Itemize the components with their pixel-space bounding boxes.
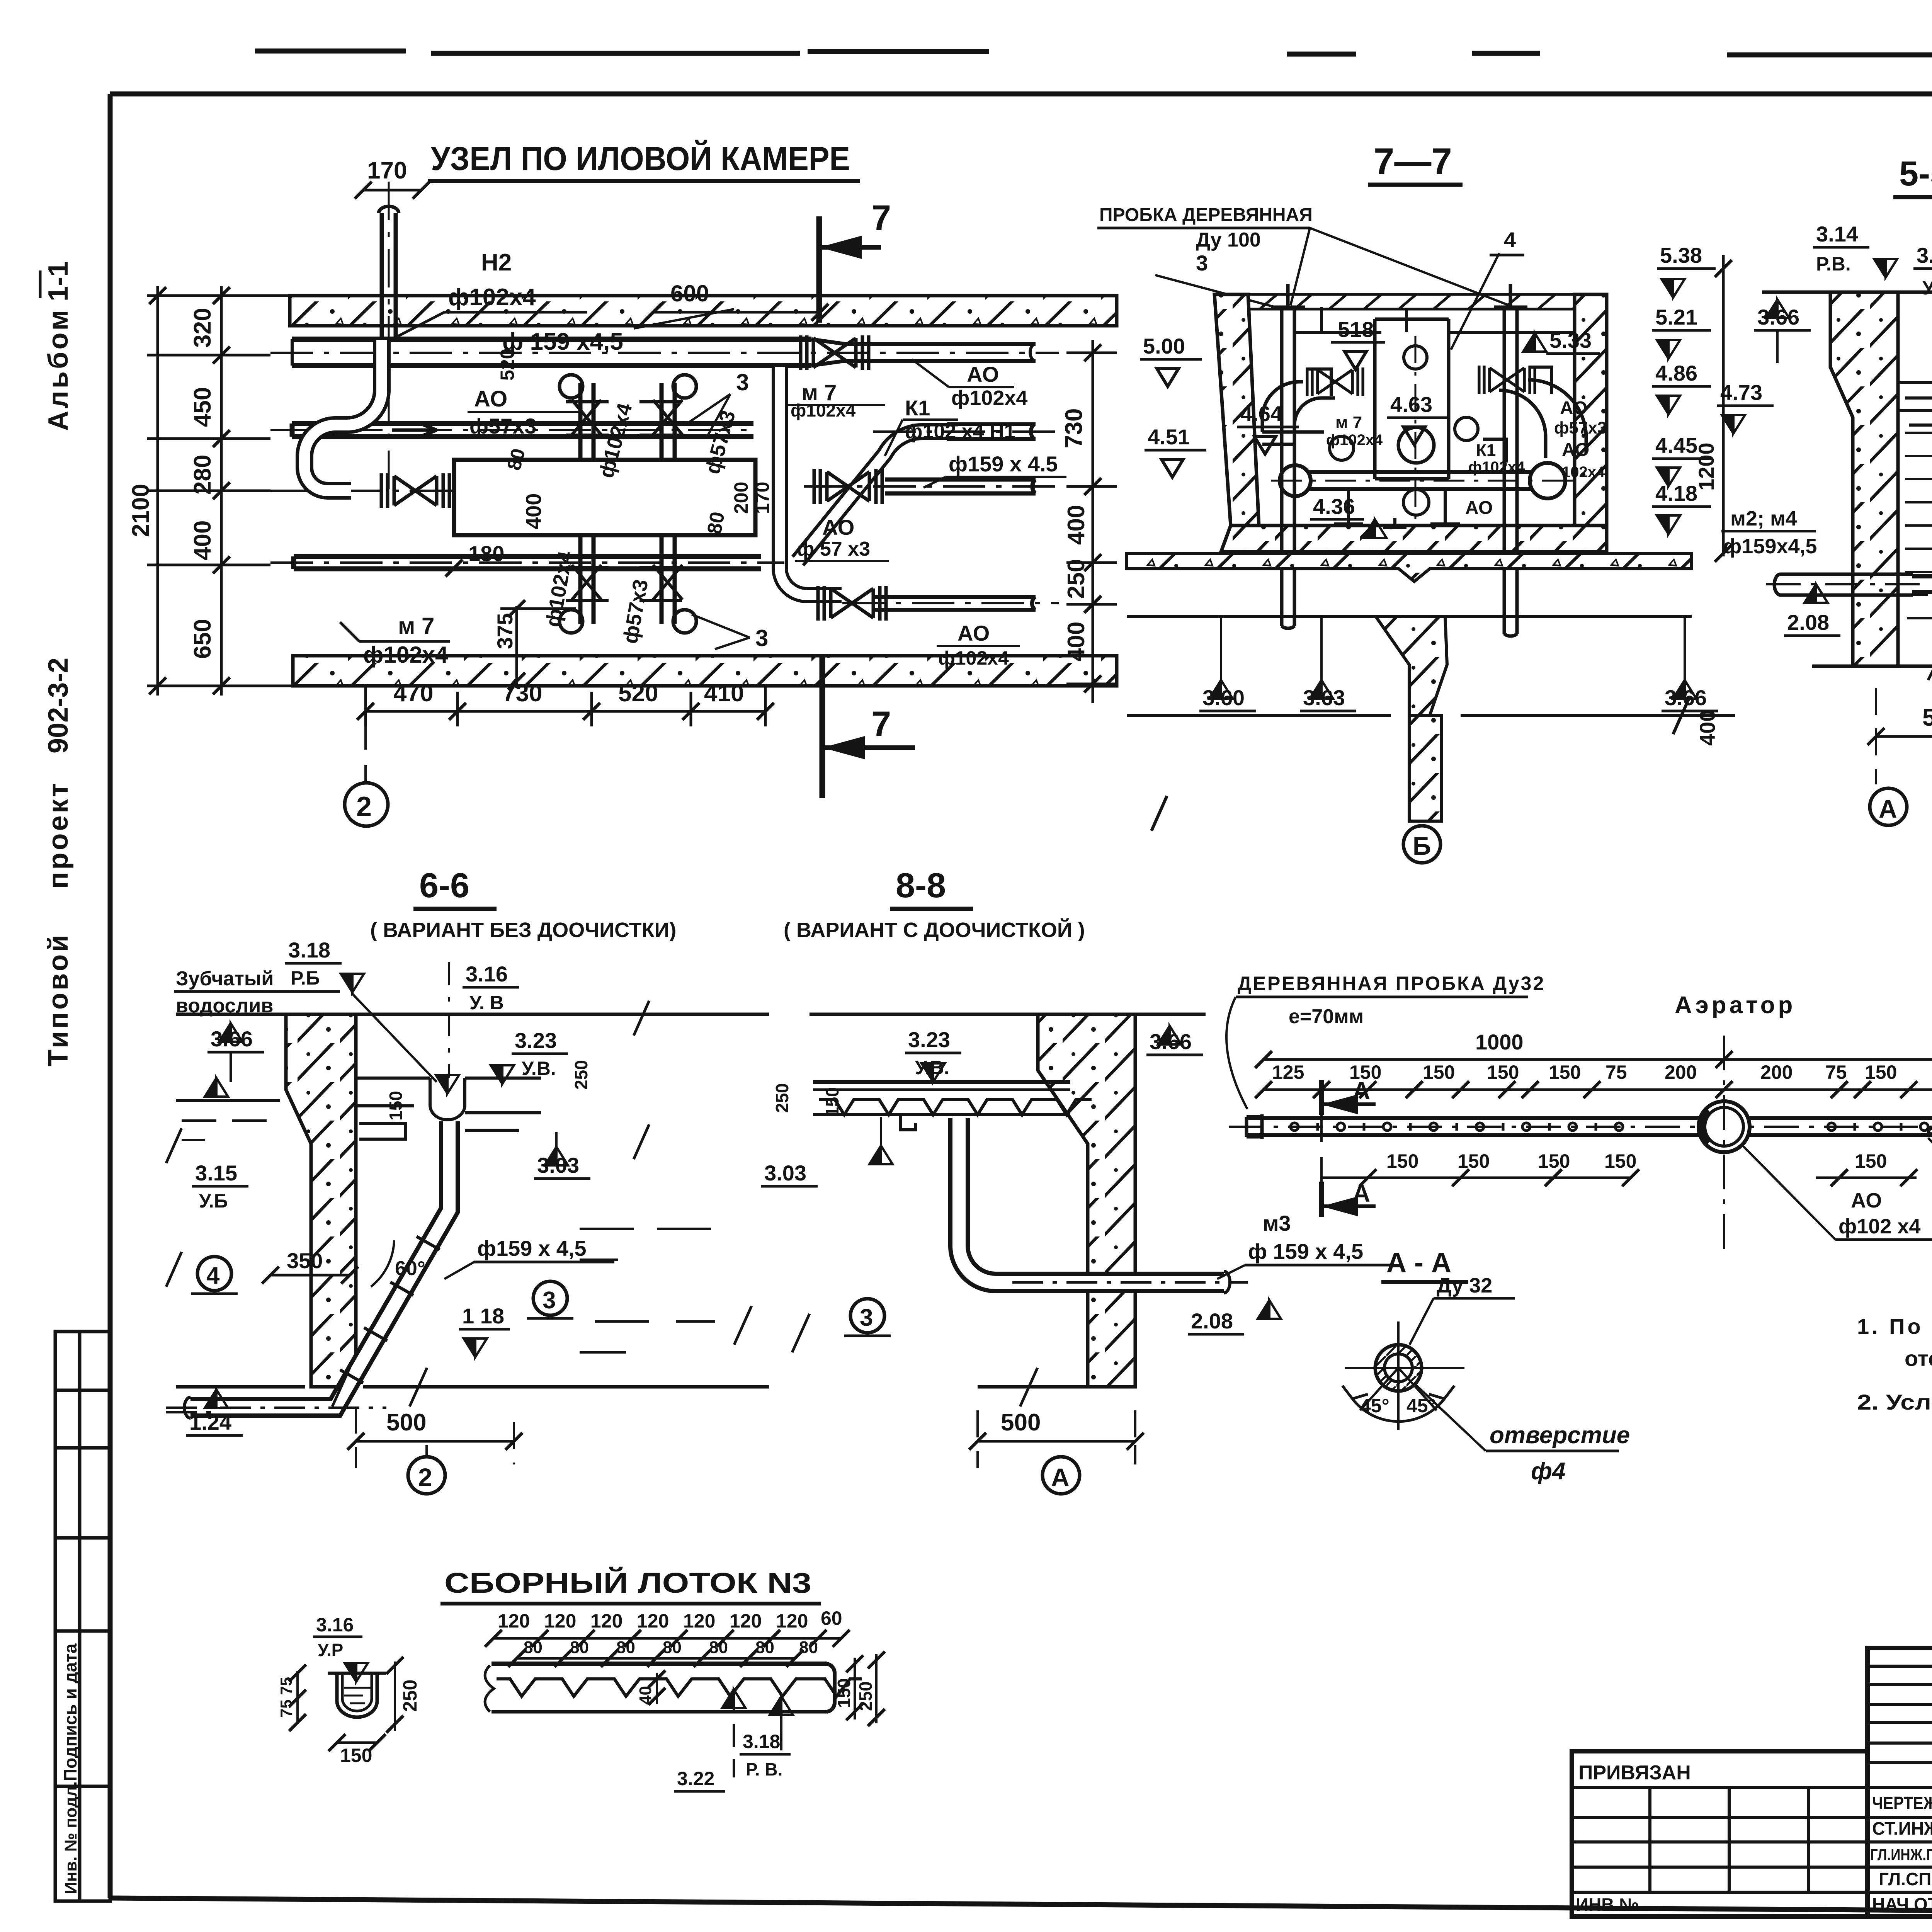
bottom dim chain bbox=[1321, 1177, 1631, 1179]
svg-text:3.18: 3.18 bbox=[288, 938, 330, 962]
ground line bbox=[176, 1013, 286, 1016]
svg-text:Альбом: Альбом bbox=[43, 308, 74, 431]
svg-text:3.22: 3.22 bbox=[677, 1768, 714, 1789]
svg-text:ф102х4: ф102х4 bbox=[951, 386, 1027, 410]
svg-text:650: 650 bbox=[189, 619, 216, 659]
svg-text:500: 500 bbox=[1001, 1409, 1041, 1436]
svg-text:200: 200 bbox=[1760, 1061, 1793, 1083]
elevation marks on teeth bbox=[722, 1689, 745, 1708]
svg-text:150: 150 bbox=[1604, 1150, 1636, 1172]
pipe supports bbox=[1334, 489, 1460, 527]
water dashes in tank bbox=[1905, 433, 1932, 618]
diagonal K1 pipe bbox=[798, 432, 958, 561]
svg-text:500: 500 bbox=[386, 1409, 426, 1436]
svg-text:3: 3 bbox=[755, 625, 768, 651]
svg-text:Н2: Н2 bbox=[481, 249, 512, 276]
svg-text:5.38: 5.38 bbox=[1660, 243, 1702, 267]
svg-text:410: 410 bbox=[704, 680, 744, 707]
svg-text:600: 600 bbox=[670, 281, 709, 306]
svg-text:3.15: 3.15 bbox=[195, 1161, 237, 1185]
svg-text:У.Р: У.Р bbox=[318, 1640, 343, 1660]
svg-text:( ВАРИАНТ С ДООЧИСТКОЙ ): ( ВАРИАНТ С ДООЧИСТКОЙ ) bbox=[784, 918, 1085, 942]
svg-text:5.33: 5.33 bbox=[1549, 328, 1592, 352]
valve on top pipe bbox=[801, 335, 869, 370]
svg-text:У.В.: У.В. bbox=[522, 1058, 556, 1079]
svg-text:АО: АО bbox=[957, 621, 990, 645]
svg-text:2. Условные обозначения труб: 2. Условные обозначения трубопроводов см… bbox=[1857, 1390, 1932, 1414]
tank wall with corbel bbox=[1830, 292, 1898, 666]
svg-text:УЗЕЛ ПО ИЛОВОЙ КАМЕРЕ: УЗЕЛ ПО ИЛОВОЙ КАМЕРЕ bbox=[431, 140, 850, 177]
svg-text:м 7: м 7 bbox=[398, 613, 434, 639]
svg-text:АО: АО bbox=[1465, 498, 1493, 518]
bottom concrete wall band bbox=[293, 656, 1117, 686]
dim 170 over riser bbox=[363, 189, 421, 192]
section 7 cut top bbox=[816, 216, 822, 323]
svg-text:м2; м4: м2; м4 bbox=[1730, 507, 1797, 530]
svg-text:75 75: 75 75 bbox=[277, 1677, 295, 1718]
svg-text:У.Б: У.Б bbox=[199, 1190, 228, 1212]
vertical pipe from lotok down bbox=[1912, 410, 1932, 584]
svg-text:ф102х4: ф102х4 bbox=[938, 647, 1009, 669]
svg-text:250: 250 bbox=[772, 1083, 792, 1113]
axis circle 2 bbox=[408, 1457, 445, 1494]
svg-text:7—7: 7—7 bbox=[1374, 141, 1452, 182]
40 dim bbox=[656, 1673, 658, 1704]
svg-text:4.64: 4.64 bbox=[1240, 401, 1282, 426]
svg-text:АО: АО bbox=[967, 362, 999, 386]
floor line bbox=[176, 1385, 305, 1389]
svg-text:( ВАРИАНТ БЕЗ ДООЧИСТКИ): ( ВАРИАНТ БЕЗ ДООЧИСТКИ) bbox=[370, 918, 676, 942]
centerline of top pipe bbox=[270, 352, 1059, 354]
svg-text:280: 280 bbox=[189, 455, 216, 495]
svg-text:ГЛ.ИНЖ.ПР.: ГЛ.ИНЖ.ПР. bbox=[1870, 1845, 1932, 1864]
svg-text:150: 150 bbox=[1386, 1150, 1418, 1172]
svg-text:3.03: 3.03 bbox=[764, 1161, 806, 1185]
svg-text:60°: 60° bbox=[395, 1257, 425, 1280]
svg-text:400: 400 bbox=[521, 493, 546, 529]
svg-text:520: 520 bbox=[618, 680, 658, 707]
svg-text:520: 520 bbox=[497, 349, 518, 381]
svg-text:320: 320 bbox=[189, 308, 216, 348]
svg-text:СТ.ИНЖ.: СТ.ИНЖ. bbox=[1872, 1818, 1932, 1838]
svg-text:4.73: 4.73 bbox=[1720, 380, 1762, 405]
svg-text:2.08: 2.08 bbox=[1787, 610, 1829, 634]
axis circle 3 bbox=[850, 1299, 884, 1333]
svg-text:ф159х4,5: ф159х4,5 bbox=[1723, 535, 1817, 558]
svg-text:Типовой: Типовой bbox=[43, 932, 74, 1066]
svg-text:ф102 х4: ф102 х4 bbox=[1838, 1215, 1920, 1238]
svg-text:проект: проект bbox=[43, 781, 74, 889]
small bracket under plank bbox=[900, 1114, 916, 1130]
svg-text:АО: АО bbox=[474, 386, 507, 412]
right dim chain of plan bbox=[1066, 340, 1117, 703]
lower-right pipe row with valve bbox=[873, 597, 1036, 610]
valve on left elbow run bbox=[381, 473, 449, 508]
svg-text:1.24: 1.24 bbox=[189, 1410, 231, 1434]
svg-text:75: 75 bbox=[1605, 1061, 1627, 1083]
long trough top dim chains bbox=[493, 1637, 841, 1640]
pipe K1/H1 right run bbox=[947, 424, 1036, 439]
down pipe with elbow right bbox=[959, 1118, 1224, 1282]
svg-text:АО: АО bbox=[1560, 398, 1587, 418]
svg-text:400: 400 bbox=[1063, 622, 1090, 662]
svg-text:Р.В.: Р.В. bbox=[1816, 253, 1851, 275]
svg-text:ф 57 х3: ф 57 х3 bbox=[797, 538, 870, 560]
dims of small section bbox=[296, 1671, 299, 1723]
svg-text:250: 250 bbox=[399, 1680, 421, 1712]
svg-text:Ду 100: Ду 100 bbox=[1196, 229, 1261, 251]
svg-text:ф102х4: ф102х4 bbox=[363, 642, 448, 668]
svg-text:А: А bbox=[1051, 1463, 1070, 1492]
svg-text:4.45: 4.45 bbox=[1655, 433, 1697, 457]
svg-text:е=70мм: е=70мм bbox=[1289, 1005, 1364, 1028]
level marks inside tank bbox=[1140, 317, 1600, 538]
svg-text:150: 150 bbox=[1458, 1150, 1490, 1172]
svg-text:АО: АО bbox=[1562, 440, 1589, 460]
svg-text:У. В: У. В bbox=[469, 992, 504, 1014]
middle risers cluster upper (pair) bbox=[560, 375, 696, 460]
top dim chain 1000/1000 bbox=[1264, 1058, 1932, 1061]
svg-text:150: 150 bbox=[1865, 1061, 1897, 1083]
svg-text:500: 500 bbox=[1922, 704, 1932, 731]
svg-text:3.16: 3.16 bbox=[466, 962, 508, 986]
svg-text:120: 120 bbox=[683, 1610, 715, 1632]
second dim chain bbox=[1264, 1088, 1932, 1091]
svg-text:80: 80 bbox=[755, 1638, 774, 1657]
svg-text:Инв. № подл.: Инв. № подл. bbox=[61, 1781, 80, 1894]
svg-text:Зубчатый: Зубчатый bbox=[176, 968, 274, 990]
svg-text:4.63: 4.63 bbox=[1390, 392, 1432, 417]
down pipe with 60 deg bend bbox=[190, 1121, 449, 1407]
svg-text:150: 150 bbox=[1549, 1061, 1581, 1083]
dim 500 bottom bbox=[1876, 735, 1932, 738]
svg-text:1200: 1200 bbox=[1694, 442, 1718, 491]
central flange bbox=[1699, 1101, 1750, 1152]
svg-text:ИНВ.№: ИНВ.№ bbox=[1576, 1895, 1639, 1915]
svg-text:120: 120 bbox=[730, 1610, 762, 1632]
svg-text:Р.Б: Р.Б bbox=[291, 967, 320, 989]
svg-text:У.В: У.В bbox=[1922, 277, 1932, 299]
svg-text:3.18: 3.18 bbox=[743, 1731, 780, 1752]
valve right inside tank 7-7 bbox=[1479, 366, 1535, 394]
svg-text:80: 80 bbox=[709, 1638, 728, 1657]
underground lines bbox=[1127, 616, 1735, 831]
svg-text:ф57х3: ф57х3 bbox=[469, 414, 537, 438]
left margin column strip bbox=[55, 1332, 110, 1901]
ground top line bbox=[1762, 291, 1830, 294]
svg-text:3.14: 3.14 bbox=[1816, 222, 1858, 246]
svg-text:К1: К1 bbox=[1476, 441, 1496, 460]
svg-text:3: 3 bbox=[860, 1304, 873, 1331]
svg-text:902-3-2: 902-3-2 bbox=[43, 658, 74, 753]
lotok plank with teeth bbox=[813, 1082, 1092, 1115]
trough body bbox=[485, 1664, 862, 1712]
svg-text:3: 3 bbox=[1196, 251, 1208, 275]
svg-text:150: 150 bbox=[834, 1678, 854, 1708]
wood plug riser left bbox=[1271, 284, 1305, 628]
svg-text:150: 150 bbox=[1423, 1061, 1455, 1083]
bottom left pipe into wall bbox=[1774, 574, 1913, 595]
left S-elbow pipe (hollow) bbox=[304, 340, 382, 491]
svg-text:3.11: 3.11 bbox=[1917, 243, 1932, 267]
svg-text:м3: м3 bbox=[1263, 1211, 1291, 1235]
lower left pipe elevation bbox=[205, 1389, 228, 1408]
svg-text:150: 150 bbox=[1487, 1061, 1519, 1083]
water area with lotok bbox=[1898, 383, 1932, 432]
svg-text:АО: АО bbox=[1851, 1189, 1882, 1212]
svg-text:75: 75 bbox=[1825, 1061, 1847, 1083]
svg-text:ф102 х4 Н1: ф102 х4 Н1 bbox=[905, 420, 1015, 443]
svg-text:Ду 32: Ду 32 bbox=[1437, 1274, 1492, 1297]
svg-text:5-5: 5-5 bbox=[1899, 155, 1932, 193]
svg-text:3: 3 bbox=[543, 1287, 556, 1314]
svg-text:1 18: 1 18 bbox=[462, 1304, 504, 1328]
svg-text:Аэратор: Аэратор bbox=[1675, 992, 1796, 1019]
svg-text:80: 80 bbox=[663, 1638, 682, 1657]
axis circles bbox=[197, 1257, 231, 1291]
svg-text:470: 470 bbox=[393, 680, 433, 707]
water line left bbox=[176, 1099, 280, 1102]
svg-text:400: 400 bbox=[189, 520, 216, 560]
svg-text:6-6: 6-6 bbox=[419, 866, 469, 905]
wire: centerline row 280 bbox=[270, 490, 553, 492]
floor line bbox=[1812, 665, 1932, 668]
inner loop pipes bbox=[1262, 380, 1586, 463]
svg-text:ф102х4: ф102х4 bbox=[448, 284, 536, 311]
svg-text:200: 200 bbox=[730, 482, 752, 514]
svg-text:АО: АО bbox=[822, 515, 854, 539]
privyazan table bbox=[1572, 1787, 1867, 1892]
inner pipework top run bbox=[1294, 307, 1575, 332]
section 7 cut bottom bbox=[820, 657, 825, 798]
valve left inside tank 7-7 bbox=[1307, 367, 1363, 396]
pipe AO f57x3 middle feed bbox=[292, 423, 753, 437]
svg-text:Б: Б bbox=[1413, 832, 1431, 860]
svg-text:80: 80 bbox=[570, 1638, 589, 1657]
svg-text:ф159 х 4.5: ф159 х 4.5 bbox=[949, 452, 1058, 476]
svg-text:1-1: 1-1 bbox=[43, 261, 74, 301]
svg-text:4: 4 bbox=[206, 1262, 220, 1289]
svg-text:150: 150 bbox=[1538, 1150, 1570, 1172]
svg-text:отверстие: отверстие bbox=[1490, 1422, 1630, 1449]
pipe AO f159x4.5 top run bbox=[292, 339, 1036, 366]
svg-text:3.23: 3.23 bbox=[908, 1027, 950, 1052]
svg-text:120: 120 bbox=[544, 1610, 576, 1632]
floor break bbox=[792, 1314, 1037, 1406]
svg-text:ф159 х 4,5: ф159 х 4,5 bbox=[477, 1236, 587, 1260]
svg-text:5.00: 5.00 bbox=[1143, 334, 1185, 358]
dim 375 bbox=[515, 606, 518, 688]
svg-text:2.08: 2.08 bbox=[1191, 1309, 1233, 1333]
right level column 7-7 bbox=[1652, 243, 1732, 562]
svg-text:80: 80 bbox=[703, 510, 729, 536]
svg-text:4.36: 4.36 bbox=[1313, 494, 1355, 519]
svg-text:ф 159 х4,5: ф 159 х4,5 bbox=[502, 328, 623, 355]
svg-text:7: 7 bbox=[871, 704, 891, 744]
holes bbox=[1291, 1123, 1932, 1131]
tank bottom slab bbox=[1221, 526, 1607, 552]
svg-text:3.23: 3.23 bbox=[515, 1028, 557, 1053]
svg-text:80: 80 bbox=[616, 1638, 635, 1657]
valve on lower-right AO pipe row bbox=[818, 586, 886, 621]
svg-text:375: 375 bbox=[493, 613, 517, 649]
svg-text:ПРИВЯЗАН: ПРИВЯЗАН bbox=[1578, 1762, 1691, 1784]
svg-text:350: 350 bbox=[287, 1248, 323, 1273]
axis circle B bbox=[1403, 826, 1440, 863]
axis circle 2 bbox=[364, 726, 367, 784]
svg-text:4: 4 bbox=[1504, 228, 1516, 252]
svg-text:ДЕРЕВЯННАЯ ПРОБКА Ду32: ДЕРЕВЯННАЯ ПРОБКА Ду32 bbox=[1238, 973, 1545, 994]
signatures table grid bbox=[1867, 1648, 1932, 1917]
bottom dim chain bbox=[366, 710, 765, 713]
45 deg arc bbox=[1352, 1399, 1444, 1422]
chamber rectangle bbox=[454, 460, 755, 535]
right wall with corbel bbox=[1038, 1014, 1135, 1387]
ground line bbox=[810, 1013, 1038, 1016]
svg-text:120: 120 bbox=[637, 1610, 669, 1632]
svg-text:ф57х3: ф57х3 bbox=[1554, 418, 1607, 437]
aerator pipe body bbox=[1247, 1111, 1932, 1141]
svg-text:8-8: 8-8 bbox=[896, 866, 946, 905]
pipe ring bbox=[1375, 1345, 1422, 1391]
flow arrow on middle pipe bbox=[392, 424, 437, 436]
svg-text:250: 250 bbox=[1063, 559, 1090, 599]
section A cut marks bbox=[1319, 1080, 1324, 1115]
svg-text:1000: 1000 bbox=[1475, 1030, 1524, 1054]
top concrete wall band bbox=[290, 296, 1117, 326]
svg-text:40: 40 bbox=[636, 1686, 655, 1705]
svg-text:3: 3 bbox=[736, 369, 749, 395]
inner central column bbox=[1375, 319, 1449, 479]
stub into chamber bbox=[479, 491, 518, 510]
svg-text:170: 170 bbox=[752, 482, 773, 514]
svg-text:150: 150 bbox=[340, 1745, 372, 1766]
svg-text:80: 80 bbox=[524, 1638, 543, 1657]
svg-text:Р. В.: Р. В. bbox=[746, 1759, 782, 1779]
riser H2 vertical top-left bbox=[379, 206, 399, 339]
svg-text:518: 518 bbox=[1338, 317, 1374, 342]
pipe f159x4.5 right row bbox=[885, 480, 1036, 493]
svg-text:150: 150 bbox=[386, 1091, 406, 1121]
svg-text:120: 120 bbox=[498, 1610, 530, 1632]
wood plug riser right bbox=[1494, 284, 1527, 636]
svg-text:4.51: 4.51 bbox=[1148, 425, 1190, 449]
axis circle A bbox=[1870, 788, 1907, 825]
central lotok bbox=[356, 1078, 541, 1139]
svg-text:45°: 45° bbox=[1360, 1395, 1389, 1417]
svg-text:180: 180 bbox=[468, 541, 504, 566]
svg-text:м 7: м 7 bbox=[1335, 413, 1362, 432]
svg-text:4.86: 4.86 bbox=[1655, 361, 1697, 385]
svg-text:ЧЕРТЕЖИ: ЧЕРТЕЖИ bbox=[1872, 1793, 1932, 1813]
svg-text:102х4: 102х4 bbox=[1562, 464, 1605, 481]
wall with corbel bbox=[286, 1014, 356, 1387]
svg-text:А - А: А - А bbox=[1386, 1247, 1451, 1278]
svg-text:ф 159 х 4,5: ф 159 х 4,5 bbox=[1248, 1239, 1363, 1264]
valve on pipe f159x4.5 right row bbox=[814, 469, 882, 504]
svg-text:ф102х4: ф102х4 bbox=[791, 400, 856, 420]
svg-text:120: 120 bbox=[776, 1610, 808, 1632]
axis circle A bbox=[1043, 1457, 1080, 1494]
svg-text:отсутствует трубопровод м7: отсутствует трубопровод м7. bbox=[1905, 1346, 1932, 1371]
svg-text:125: 125 bbox=[1272, 1061, 1304, 1083]
svg-text:400: 400 bbox=[1695, 710, 1719, 746]
svg-text:250: 250 bbox=[855, 1681, 876, 1711]
svg-text:Подпись и дата: Подпись и дата bbox=[60, 1643, 80, 1781]
svg-text:А: А bbox=[1352, 1077, 1370, 1105]
water dashes right side bbox=[580, 1229, 715, 1352]
dim 500 bottom bbox=[978, 1440, 1135, 1443]
svg-text:120: 120 bbox=[590, 1610, 622, 1632]
vertical pipe at section 7 line bbox=[780, 367, 842, 595]
svg-text:4.18: 4.18 bbox=[1655, 481, 1697, 505]
stamp outer boxes bbox=[1572, 1643, 1932, 1917]
svg-text:ф4: ф4 bbox=[1531, 1458, 1565, 1485]
left dim chain bbox=[147, 286, 294, 696]
svg-text:2: 2 bbox=[418, 1463, 432, 1492]
svg-text:2100: 2100 bbox=[128, 484, 154, 537]
svg-text:2: 2 bbox=[356, 791, 372, 822]
svg-text:730: 730 bbox=[502, 680, 542, 707]
svg-text:250: 250 bbox=[571, 1060, 591, 1090]
tank right wall bbox=[1575, 294, 1607, 526]
svg-text:К1: К1 bbox=[905, 396, 930, 420]
tank left wall bbox=[1214, 294, 1259, 526]
dim 500 bottom bbox=[356, 1440, 514, 1443]
svg-text:СБОРНЫЙ ЛОТОК N3: СБОРНЫЙ ЛОТОК N3 bbox=[444, 1566, 811, 1599]
dim 600 top bbox=[653, 311, 820, 314]
svg-text:80: 80 bbox=[799, 1638, 818, 1657]
floor slab band under tank bbox=[1127, 553, 1692, 582]
main bottom pipe with round ends bbox=[1280, 463, 1565, 498]
pipe m7 long lower run bbox=[294, 556, 761, 569]
svg-text:ПРОБКА ДЕРЕВЯННАЯ: ПРОБКА ДЕРЕВЯННАЯ bbox=[1099, 205, 1313, 225]
svg-text:170: 170 bbox=[367, 157, 407, 184]
svg-text:730: 730 bbox=[1061, 408, 1087, 448]
svg-text:5.21: 5.21 bbox=[1655, 305, 1697, 329]
svg-text:7: 7 bbox=[871, 198, 891, 238]
top scanner streak bbox=[255, 51, 1932, 55]
svg-text:А: А bbox=[1879, 794, 1897, 823]
svg-text:400: 400 bbox=[1063, 505, 1090, 545]
svg-text:ГЛ.СПЕЦ: ГЛ.СПЕЦ bbox=[1879, 1869, 1932, 1889]
svg-text:3.16: 3.16 bbox=[316, 1614, 354, 1636]
svg-text:ф102х4: ф102х4 bbox=[1326, 432, 1383, 449]
svg-text:НАЧ.ОТД.: НАЧ.ОТД. bbox=[1872, 1894, 1932, 1914]
pit wall wedge bbox=[1376, 616, 1447, 716]
svg-text:60: 60 bbox=[821, 1607, 842, 1629]
svg-text:200: 200 bbox=[1665, 1061, 1697, 1083]
svg-text:150: 150 bbox=[1855, 1150, 1887, 1172]
svg-text:450: 450 bbox=[189, 387, 216, 427]
middle risers cluster lower (pair) bbox=[560, 535, 696, 633]
tank top hatched strip bbox=[1214, 294, 1607, 309]
right dims bbox=[854, 1658, 856, 1719]
svg-text:150: 150 bbox=[822, 1087, 842, 1117]
